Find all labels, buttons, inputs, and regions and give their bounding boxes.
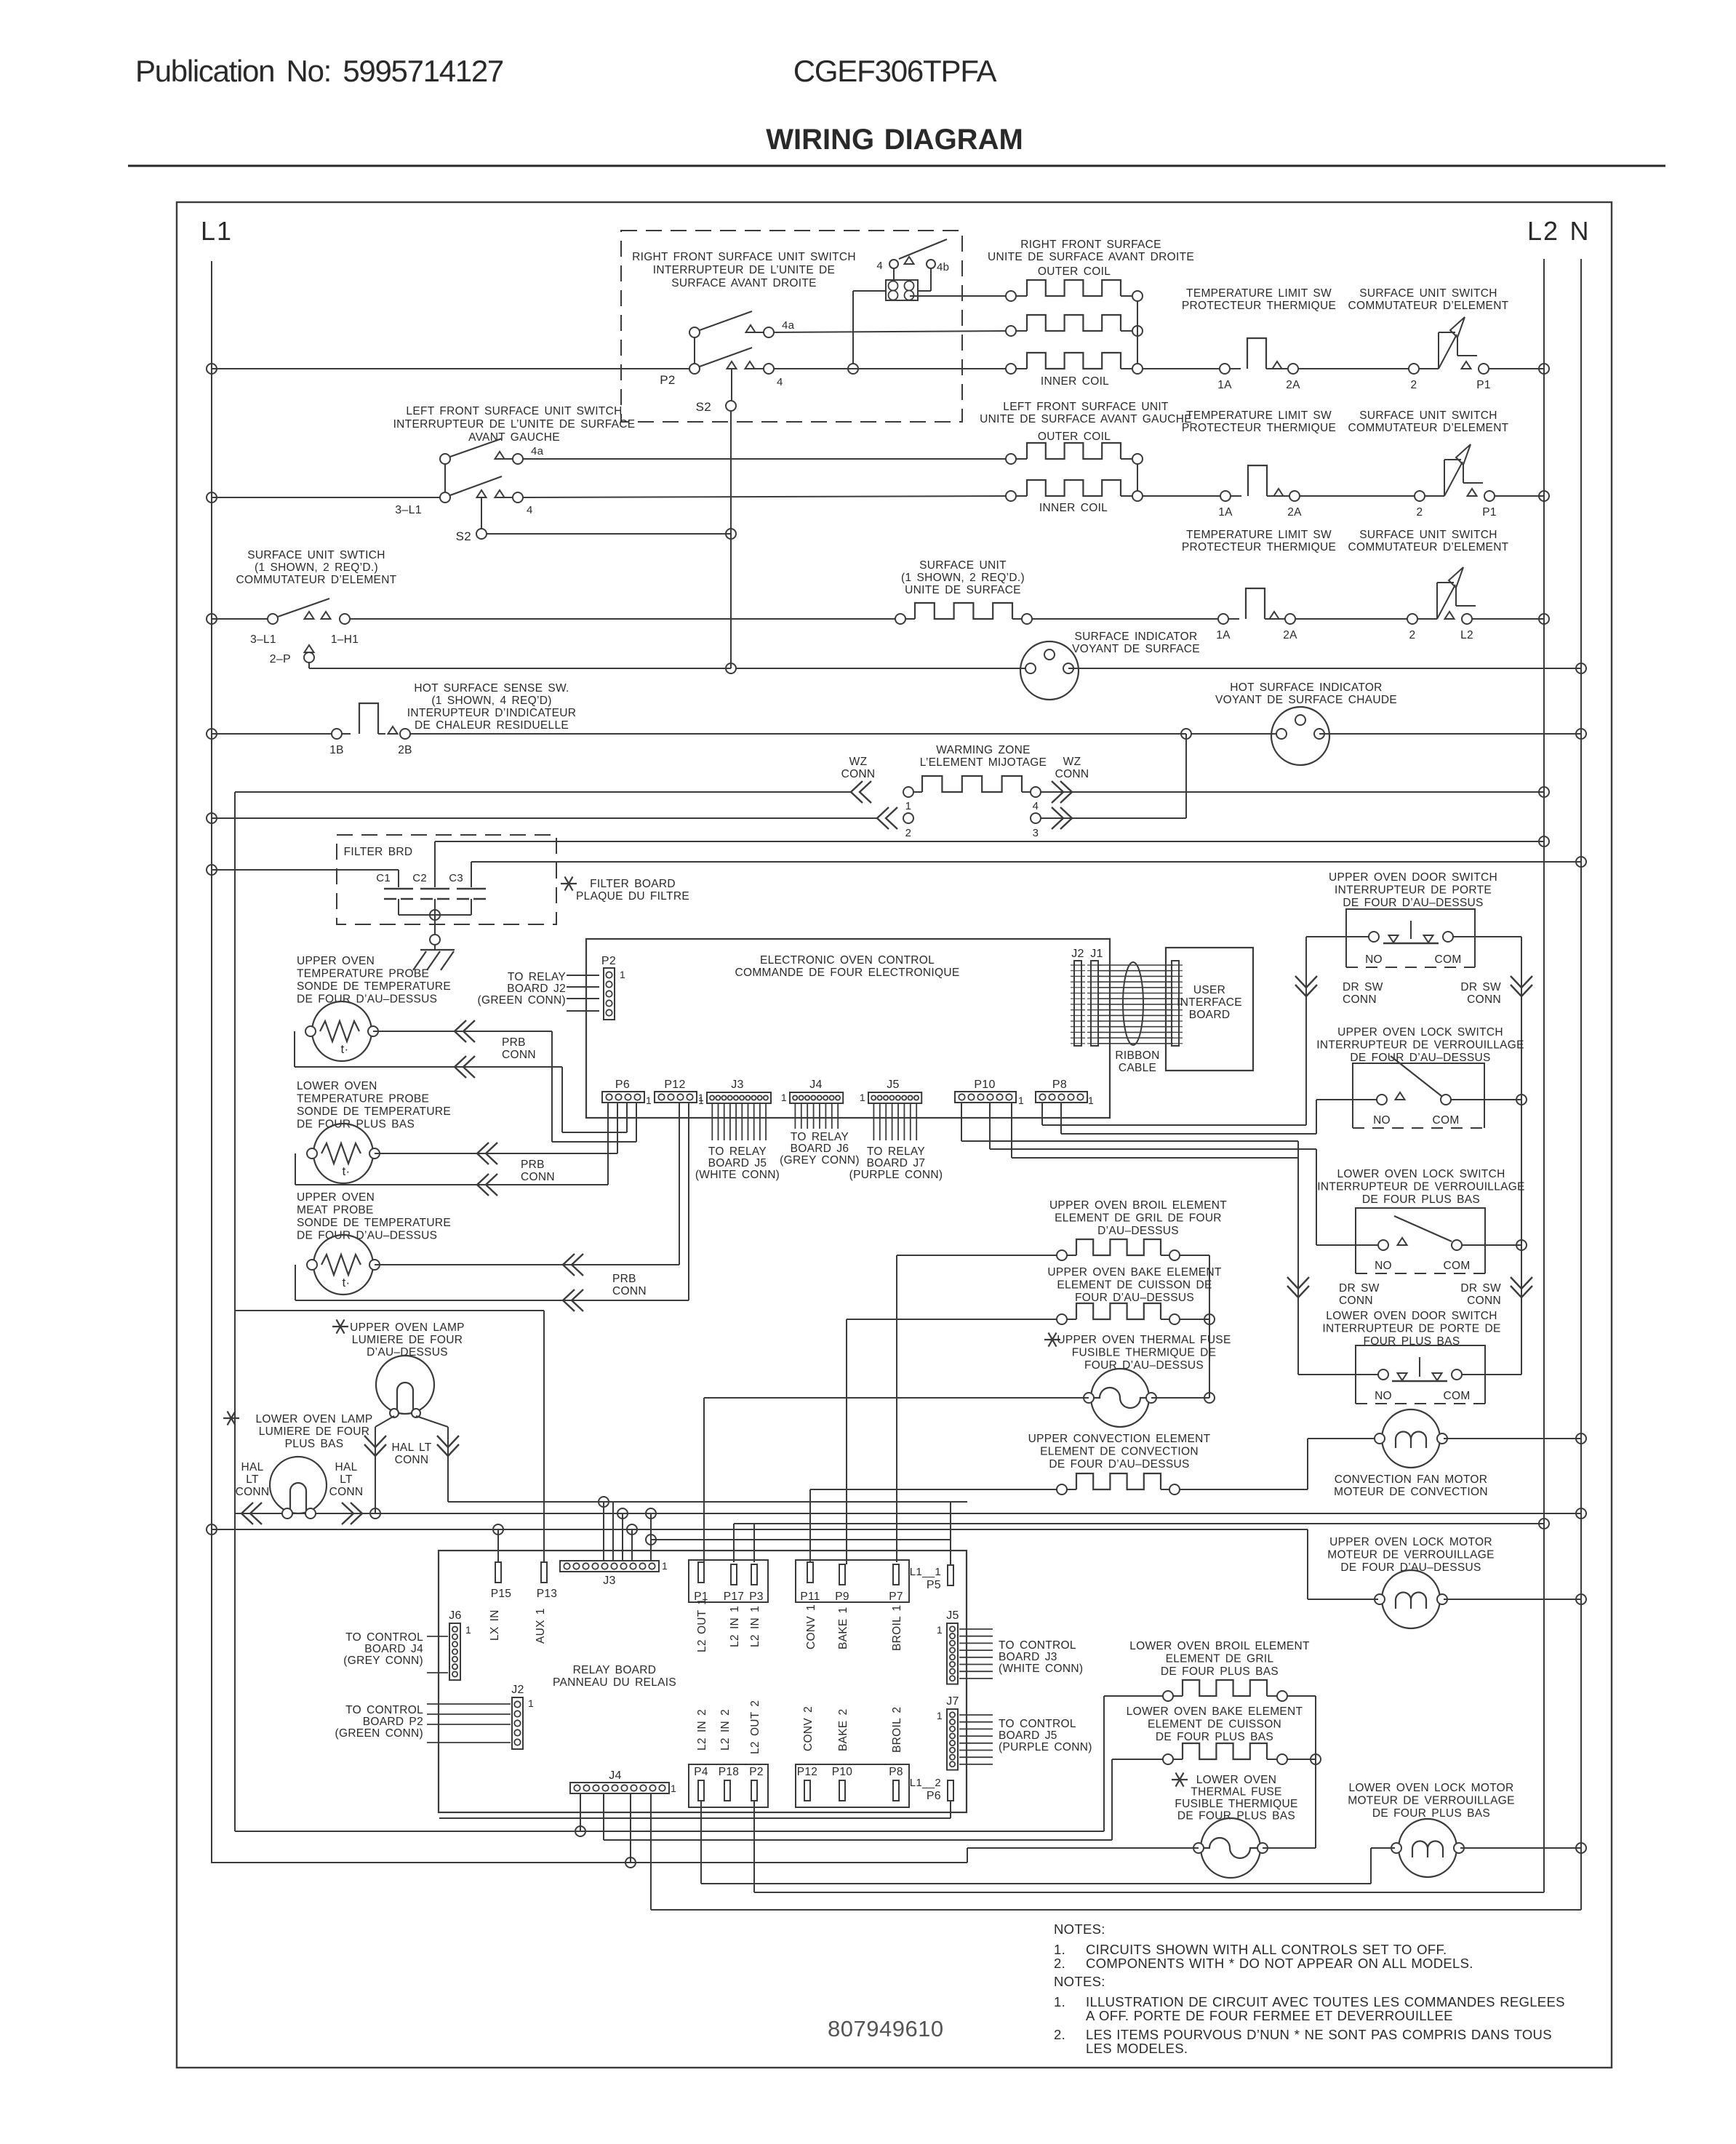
- svg-text:P2: P2: [601, 955, 616, 967]
- svg-text:HAL LT: HAL LT: [391, 1441, 431, 1454]
- svg-text:J6: J6: [449, 1609, 462, 1622]
- svg-text:WARMING ZONE: WARMING ZONE: [936, 744, 1031, 756]
- svg-text:(WHITE CONN): (WHITE CONN): [695, 1169, 780, 1181]
- svg-text:CONN: CONN: [329, 1486, 364, 1498]
- svg-text:SONDE DE TEMPERATURE: SONDE DE TEMPERATURE: [297, 980, 451, 993]
- wire warming row2 left: [207, 813, 877, 823]
- text L2 OUT 2: [749, 1700, 761, 1754]
- upper oven lock motor: [1375, 1570, 1447, 1628]
- svg-text:DE FOUR PLUS BAS: DE FOUR PLUS BAS: [1177, 1810, 1295, 1823]
- wires J6 ticks: [427, 1636, 448, 1673]
- svg-text:COM: COM: [1432, 1114, 1459, 1127]
- svg-text:2B: 2B: [398, 744, 412, 756]
- svg-text:SURFACE UNIT SWITCH: SURFACE UNIT SWITCH: [1359, 287, 1497, 300]
- wire J3 up a: [603, 1502, 604, 1561]
- svg-text:J2: J2: [1071, 948, 1084, 960]
- connector P10: [955, 1079, 1024, 1106]
- svg-text:CONV 2: CONV 2: [802, 1706, 815, 1751]
- svg-text:DE CHALEUR RESIDUELLE: DE CHALEUR RESIDUELLE: [415, 719, 569, 732]
- wire 2A to sw row3: [1295, 618, 1407, 620]
- label 3-L1 row2: [395, 504, 422, 516]
- prb conn label upper: [502, 1036, 536, 1061]
- svg-text:L1__1: L1__1: [910, 1566, 941, 1578]
- prb conn chevron lower1: [477, 1143, 497, 1164]
- svg-text:BOARD J3: BOARD J3: [999, 1651, 1057, 1663]
- svg-text:2: 2: [905, 827, 912, 839]
- svg-text:UPPER OVEN LOCK SWITCH: UPPER OVEN LOCK SWITCH: [1337, 1026, 1503, 1039]
- svg-text:BOARD J6: BOARD J6: [791, 1143, 849, 1155]
- wire P12 pin4: [688, 1103, 689, 1300]
- wire x323 to relay: [235, 1310, 544, 1311]
- wire J3 up b: [650, 1513, 652, 1561]
- svg-text:1: 1: [465, 1624, 471, 1636]
- svg-text:CONN: CONN: [1055, 768, 1089, 780]
- svg-text:TEMPERATURE LIMIT SW: TEMPERATURE LIMIT SW: [1186, 287, 1332, 300]
- wire meat probe top: [375, 1264, 679, 1265]
- label NO upper lock: [1373, 1114, 1391, 1127]
- svg-text:BOARD J5: BOARD J5: [708, 1157, 767, 1169]
- svg-text:ELEMENT DE CUISSON DE: ELEMENT DE CUISSON DE: [1057, 1279, 1212, 1292]
- svg-text:COMMUTATEUR D’ELEMENT: COMMUTATEUR D’ELEMENT: [236, 574, 397, 586]
- svg-text:HOT SURFACE SENSE SW.: HOT SURFACE SENSE SW.: [414, 682, 569, 695]
- svg-text:J4: J4: [609, 1769, 622, 1782]
- wire broil lower left: [1104, 1696, 1163, 1831]
- wire upper lamp left lead: [375, 1416, 394, 1513]
- connector P6: [602, 1079, 652, 1106]
- svg-text:LOWER OVEN LAMP: LOWER OVEN LAMP: [255, 1413, 372, 1425]
- wire indicator to N: [1068, 663, 1586, 673]
- svg-text:CGEF306TPFA: CGEF306TPFA: [793, 54, 997, 88]
- svg-text:MOTEUR DE VERROUILLAGE: MOTEUR DE VERROUILLAGE: [1327, 1549, 1495, 1561]
- upper convection element: [1057, 1473, 1180, 1495]
- svg-text:TO CONTROL: TO CONTROL: [999, 1718, 1076, 1730]
- svg-text:J2: J2: [511, 1684, 524, 1696]
- slot P7: [889, 1564, 903, 1603]
- wires J7 ticks: [959, 1715, 993, 1764]
- svg-text:LT: LT: [246, 1473, 259, 1486]
- svg-text:SONDE DE TEMPERATURE: SONDE DE TEMPERATURE: [297, 1105, 451, 1118]
- wz terminal 3: [1031, 813, 1041, 839]
- wire bake lower right: [1287, 1754, 1321, 1848]
- label P1 row2: [1482, 506, 1497, 519]
- svg-text:PRB: PRB: [612, 1273, 636, 1285]
- svg-text:PRB: PRB: [502, 1036, 526, 1049]
- svg-text:LES ITEMS POURVOUS D’NUN * NE: LES ITEMS POURVOUS D’NUN * NE SONT PAS C…: [1086, 2027, 1552, 2042]
- svg-text:UPPER OVEN BAKE ELEMENT: UPPER OVEN BAKE ELEMENT: [1047, 1266, 1221, 1279]
- svg-text:INTERRUPTEUR DE VERROUILLAGE: INTERRUPTEUR DE VERROUILLAGE: [1316, 1039, 1524, 1052]
- convection fan motor label: [1334, 1473, 1488, 1498]
- wire 2B to indicator: [410, 729, 1281, 739]
- label 4 row1: [777, 376, 783, 388]
- wire upper lamp right lead: [416, 1416, 448, 1502]
- svg-text:WIRING DIAGRAM: WIRING DIAGRAM: [766, 124, 1023, 156]
- wire coils to 1A row2: [1143, 495, 1220, 497]
- wire row filter L1: [207, 865, 399, 875]
- svg-text:TEMPERATURE LIMIT SW: TEMPERATURE LIMIT SW: [1186, 409, 1332, 422]
- svg-text:NO: NO: [1365, 953, 1383, 966]
- wire conv motor to N: [1444, 1433, 1586, 1444]
- wire P13 drop: [543, 1311, 545, 1562]
- svg-text:HAL: HAL: [241, 1461, 263, 1473]
- svg-text:P3: P3: [749, 1591, 764, 1603]
- svg-text:J4: J4: [809, 1079, 823, 1091]
- svg-text:LOWER OVEN DOOR SWITCH: LOWER OVEN DOOR SWITCH: [1326, 1310, 1497, 1322]
- label P12r: [797, 1766, 817, 1778]
- svg-text:PANNEAU DU RELAIS: PANNEAU DU RELAIS: [553, 1676, 676, 1689]
- filter board dashed box: [337, 835, 556, 924]
- wz terminal 2: [903, 813, 913, 839]
- svg-text:COMMUTATEUR D’ELEMENT: COMMUTATEUR D’ELEMENT: [1348, 300, 1509, 312]
- svg-text:LEFT FRONT SURFACE UNIT SWITCH: LEFT FRONT SURFACE UNIT SWITCH: [406, 405, 622, 417]
- ribbon cable label: [1115, 1049, 1159, 1074]
- slot P10r: [839, 1780, 845, 1801]
- svg-text:SURFACE UNIT SWITCH: SURFACE UNIT SWITCH: [1359, 409, 1497, 422]
- svg-text:PLUS BAS: PLUS BAS: [285, 1438, 344, 1450]
- svg-text:LOWER OVEN LOCK SWITCH: LOWER OVEN LOCK SWITCH: [1337, 1168, 1505, 1180]
- label outer coil row1: [1038, 265, 1111, 278]
- wire J4 pin a: [580, 1794, 581, 1831]
- svg-text:VOYANT DE SURFACE CHAUDE: VOYANT DE SURFACE CHAUDE: [1215, 694, 1397, 706]
- wire coil common row2: [1137, 464, 1138, 491]
- prb conn chevron upper2: [455, 1056, 475, 1078]
- label NO lower door: [1375, 1390, 1392, 1402]
- svg-text:P7: P7: [889, 1591, 903, 1603]
- wire P1 to L2 row1: [1489, 364, 1549, 374]
- connector J5 eoc: [860, 1079, 921, 1103]
- svg-text:4: 4: [527, 504, 533, 516]
- to relay board J5 label: [695, 1145, 780, 1181]
- text BAKE 2: [837, 1708, 849, 1751]
- svg-text:OUTER COIL: OUTER COIL: [1038, 265, 1111, 278]
- label inner coil row2: [1039, 502, 1108, 514]
- wire row 2530: [604, 1794, 1112, 1840]
- dr sw conn label lower right: [1460, 1282, 1501, 1307]
- schematic border: [177, 202, 1612, 2068]
- svg-text:t·: t·: [343, 1276, 351, 1289]
- svg-text:PROTECTEUR THERMIQUE: PROTECTEUR THERMIQUE: [1182, 300, 1336, 312]
- svg-text:MEAT PROBE: MEAT PROBE: [297, 1204, 374, 1217]
- label COM lower lock: [1443, 1260, 1470, 1272]
- lower oven thermal fuse: [1193, 1818, 1268, 1878]
- wire row 2602: [754, 1801, 1544, 1892]
- upper oven thermal fuse: [1084, 1369, 1156, 1427]
- svg-text:TO RELAY: TO RELAY: [867, 1145, 925, 1158]
- lower oven door switch: [1378, 1357, 1462, 1381]
- svg-text:INTERFACE: INTERFACE: [1177, 996, 1242, 1009]
- surface unit switch row1: [1409, 317, 1489, 374]
- svg-text:COM: COM: [1434, 953, 1461, 966]
- text L2 OUT 1: [696, 1599, 708, 1652]
- svg-text:1: 1: [781, 1092, 787, 1103]
- user interface board label: [1177, 984, 1242, 1021]
- svg-text:LUMIERE DE FOUR: LUMIERE DE FOUR: [259, 1425, 369, 1438]
- svg-text:RIGHT FRONT SURFACE UNIT SWITC: RIGHT FRONT SURFACE UNIT SWITCH: [632, 251, 856, 263]
- svg-text:4b: 4b: [937, 261, 949, 273]
- coil inner row1: [1006, 353, 1143, 374]
- svg-text:1A: 1A: [1217, 379, 1232, 391]
- connector P2 eoc: [601, 955, 625, 1020]
- svg-text:NOTES:: NOTES:: [1054, 1921, 1105, 1937]
- wire x323 vertical: [234, 792, 236, 1831]
- svg-text:LX IN: LX IN: [489, 1609, 501, 1641]
- label L1_1 P5: [910, 1566, 941, 1591]
- slot P12r: [804, 1780, 810, 1801]
- label 1-H1 row3: [331, 633, 359, 646]
- svg-text:DR SW: DR SW: [1343, 981, 1383, 993]
- wire lower probe top: [375, 1153, 617, 1154]
- lower oven bake element label: [1127, 1705, 1303, 1743]
- connector J4 eoc: [781, 1079, 843, 1103]
- svg-text:2: 2: [1411, 379, 1417, 391]
- svg-text:FILTER BOARD: FILTER BOARD: [590, 878, 676, 890]
- svg-text:NO: NO: [1375, 1260, 1392, 1272]
- switch row3: [268, 599, 350, 624]
- wire lock NO left: [1316, 1100, 1377, 1134]
- connector J3 eoc: [698, 1079, 771, 1103]
- label 4 block: [876, 260, 883, 272]
- upper oven thermal fuse label: [1044, 1332, 1231, 1372]
- lower oven lamp: [270, 1457, 327, 1513]
- prb conn label meat: [612, 1273, 647, 1297]
- hot surface indicator label: [1215, 681, 1397, 706]
- wire P10 pin6: [1012, 1103, 1298, 1158]
- slot P11: [800, 1562, 820, 1603]
- text AUX 1: [535, 1608, 547, 1644]
- svg-text:1: 1: [1018, 1095, 1024, 1106]
- label outer coil row2: [1038, 431, 1111, 443]
- svg-text:TO RELAY: TO RELAY: [708, 1145, 767, 1158]
- svg-text:UNITE DE SURFACE AVANT GAUCHE: UNITE DE SURFACE AVANT GAUCHE: [980, 413, 1192, 425]
- upper broil element: [1057, 1239, 1180, 1260]
- svg-text:NO: NO: [1375, 1390, 1392, 1402]
- box P4 P18 P2: [689, 1764, 768, 1807]
- wire broil lower right: [1287, 1696, 1316, 1759]
- wire row 2590: [701, 1801, 1371, 1884]
- lower oven lock motor label: [1348, 1782, 1515, 1820]
- dr sw conn label upper right: [1460, 981, 1501, 1006]
- svg-text:AUX 1: AUX 1: [535, 1608, 547, 1644]
- label P1 row1: [1476, 379, 1491, 391]
- svg-text:C3: C3: [449, 872, 463, 884]
- wire row3 to coil: [350, 618, 895, 620]
- svg-text:FOUR D’AU–DESSUS: FOUR D’AU–DESSUS: [1075, 1292, 1194, 1304]
- N bus: [1580, 259, 1582, 1910]
- wire row 2561 L1: [211, 1857, 967, 1868]
- svg-text:L2: L2: [1460, 629, 1473, 641]
- svg-text:BAKE 1: BAKE 1: [837, 1607, 849, 1649]
- svg-text:1: 1: [1088, 1095, 1094, 1106]
- svg-text:LOWER OVEN: LOWER OVEN: [1196, 1774, 1277, 1786]
- svg-text:D’AU–DESSUS: D’AU–DESSUS: [367, 1346, 448, 1359]
- upper oven broil element label: [1049, 1199, 1227, 1237]
- svg-text:P6: P6: [615, 1079, 630, 1091]
- label 1A row2: [1218, 506, 1233, 519]
- wire cap commons: [399, 910, 471, 920]
- temp limit switch row3: [1218, 588, 1295, 624]
- svg-text:1: 1: [671, 1783, 676, 1794]
- slot P8r: [893, 1780, 899, 1801]
- surface unit switch row3: [1407, 567, 1476, 624]
- svg-text:DE FOUR PLUS BAS: DE FOUR PLUS BAS: [1161, 1665, 1279, 1678]
- wz conn label right: [1055, 756, 1089, 780]
- upper bake element: [1057, 1303, 1180, 1324]
- surface unit switch label row1: [1348, 287, 1509, 312]
- svg-text:CABLE: CABLE: [1119, 1062, 1156, 1074]
- lower oven lock switch: [1378, 1216, 1462, 1250]
- wire S2 right front: [696, 361, 737, 533]
- upper oven lamp label: [332, 1319, 465, 1359]
- svg-text:Publication No: 5995714127: Publication No: 5995714127: [135, 54, 503, 88]
- svg-text:LOWER OVEN LOCK MOTOR: LOWER OVEN LOCK MOTOR: [1348, 1782, 1513, 1794]
- wire convection feed: [810, 1489, 1057, 1562]
- hal lt conn chevron upper right: [437, 1436, 459, 1456]
- svg-text:RIBBON: RIBBON: [1115, 1049, 1159, 1062]
- hal lt conn label lower left: [236, 1461, 270, 1498]
- wire L2 mid row: [734, 1519, 1549, 1562]
- wire warming row1: [235, 791, 851, 793]
- svg-text:DR SW: DR SW: [1460, 1282, 1501, 1295]
- label 2A row3: [1283, 629, 1297, 641]
- upper oven door switch label: [1329, 871, 1497, 909]
- connector J5 relay: [937, 1609, 959, 1684]
- L1 bus: [211, 261, 212, 1863]
- svg-text:COM: COM: [1443, 1260, 1470, 1272]
- text LX IN: [489, 1609, 501, 1641]
- svg-text:SURFACE INDICATOR: SURFACE INDICATOR: [1075, 631, 1198, 643]
- svg-text:LES MODELES.: LES MODELES.: [1086, 2041, 1188, 2056]
- slot P5: [948, 1565, 953, 1585]
- lower oven lock motor: [1391, 1819, 1464, 1877]
- wire lower door COM: [1462, 1374, 1521, 1375]
- svg-text:INTERRUPTEUR DE VERROUILLAGE: INTERRUPTEUR DE VERROUILLAGE: [1317, 1181, 1525, 1193]
- svg-text:CONVECTION FAN MOTOR: CONVECTION FAN MOTOR: [1335, 1473, 1488, 1486]
- wire coil commons row1: [1137, 301, 1138, 364]
- wire warming to L2: [1041, 787, 1549, 797]
- label 2 row3: [1409, 629, 1416, 641]
- svg-text:L2 IN 2: L2 IN 2: [719, 1709, 732, 1751]
- wire lower probe loop: [295, 1153, 608, 1185]
- label 2A row2: [1287, 506, 1302, 519]
- svg-text:UPPER OVEN DOOR SWITCH: UPPER OVEN DOOR SWITCH: [1329, 871, 1497, 884]
- svg-text:1: 1: [905, 800, 912, 812]
- svg-text:DE FOUR D’AU–DESSUS: DE FOUR D’AU–DESSUS: [1350, 1052, 1490, 1064]
- wire P1 to L2 row2: [1495, 491, 1549, 501]
- slot P13: [537, 1562, 557, 1600]
- svg-text:P9: P9: [835, 1591, 849, 1603]
- svg-text:2–P: 2–P: [270, 653, 291, 665]
- label L2 N: [1527, 216, 1591, 246]
- svg-text:L2 OUT 1: L2 OUT 1: [696, 1599, 708, 1652]
- wire P15 drop: [497, 1529, 499, 1562]
- svg-text:TEMPERATURE PROBE: TEMPERATURE PROBE: [297, 968, 429, 980]
- wire 4a to outer row2: [523, 458, 1011, 460]
- svg-text:PROTECTEUR THERMIQUE: PROTECTEUR THERMIQUE: [1182, 541, 1336, 553]
- svg-text:(GREEN CONN): (GREEN CONN): [478, 994, 567, 1007]
- part number 807949610: [828, 2016, 944, 2041]
- upper oven door switch box: [1346, 909, 1475, 967]
- svg-text:CONV 1: CONV 1: [805, 1604, 817, 1649]
- capacitor C3: [449, 862, 486, 915]
- svg-text:L2 IN 1: L2 IN 1: [729, 1606, 741, 1647]
- wire row4 left: [207, 729, 332, 739]
- label 2 row1: [1411, 379, 1417, 391]
- svg-text:1: 1: [937, 1710, 943, 1721]
- svg-text:COMMUTATEUR D’ELEMENT: COMMUTATEUR D’ELEMENT: [1348, 541, 1509, 553]
- svg-text:SURFACE UNIT SWITCH: SURFACE UNIT SWITCH: [1359, 529, 1497, 541]
- to relay board J7 label: [849, 1145, 943, 1181]
- wire J3 up c: [617, 1508, 628, 1561]
- svg-text:4a: 4a: [782, 319, 795, 332]
- svg-text:(GREEN CONN): (GREEN CONN): [335, 1727, 424, 1740]
- label 4 row2: [527, 504, 533, 516]
- hot surface indicator lamp: [1271, 707, 1329, 765]
- label P10r: [832, 1766, 853, 1778]
- lower oven temperature probe: [307, 1124, 380, 1183]
- notes french: [1054, 1974, 1565, 2056]
- coil surface unit row3: [895, 603, 1032, 624]
- label 1A row3: [1216, 629, 1231, 641]
- svg-text:BOARD: BOARD: [1189, 1009, 1231, 1021]
- wz chevron row2 right: [1052, 807, 1072, 829]
- prb conn label lower: [521, 1159, 555, 1183]
- wire lower lock COM: [1462, 1240, 1527, 1250]
- svg-text:UPPER OVEN BROIL ELEMENT: UPPER OVEN BROIL ELEMENT: [1049, 1199, 1227, 1212]
- wire P8 pin1: [1042, 1103, 1306, 1125]
- coil outer row2: [1006, 443, 1143, 464]
- svg-text:(1 SHOWN, 2 REQ’D.): (1 SHOWN, 2 REQ’D.): [255, 561, 378, 574]
- wire row2 left: [207, 492, 440, 503]
- label P2: [660, 373, 675, 387]
- svg-text:RELAY BOARD: RELAY BOARD: [573, 1664, 657, 1676]
- svg-text:PLAQUE DU FILTRE: PLAQUE DU FILTRE: [576, 890, 689, 903]
- svg-text:WZ: WZ: [849, 756, 868, 768]
- to relay board J2 label: [478, 971, 567, 1007]
- wire broil left: [897, 1255, 1057, 1562]
- svg-text:COMPONENTS WITH * DO NOT APPEA: COMPONENTS WITH * DO NOT APPEAR ON ALL M…: [1086, 1956, 1473, 1971]
- label COM upper door: [1434, 953, 1461, 966]
- svg-text:3–L1: 3–L1: [395, 504, 422, 516]
- svg-text:P10: P10: [832, 1766, 853, 1778]
- svg-text:CONN: CONN: [841, 768, 876, 780]
- svg-text:BOARD J7: BOARD J7: [867, 1157, 926, 1169]
- label 4a row2: [531, 445, 544, 457]
- svg-text:DE FOUR D’AU–DESSUS: DE FOUR D’AU–DESSUS: [1340, 1561, 1481, 1574]
- svg-text:COM: COM: [1443, 1390, 1470, 1402]
- svg-text:UNITE DE SURFACE AVANT DROITE: UNITE DE SURFACE AVANT DROITE: [988, 251, 1194, 263]
- wire 4a to outer coil mid: [773, 331, 1011, 332]
- svg-text:ELEMENT DE GRIL DE FOUR: ELEMENT DE GRIL DE FOUR: [1055, 1212, 1222, 1225]
- temp limit switch row2: [1220, 465, 1300, 501]
- wire door NO left: [1306, 937, 1369, 1125]
- wire row1 to inner coil: [773, 364, 1011, 374]
- upper oven temperature probe: [305, 1001, 378, 1061]
- svg-text:ELEMENT DE CUISSON: ELEMENT DE CUISSON: [1148, 1719, 1281, 1731]
- electronic oven control label: [735, 954, 960, 979]
- svg-text:UPPER CONVECTION ELEMENT: UPPER CONVECTION ELEMENT: [1028, 1433, 1211, 1445]
- svg-text:CONN: CONN: [395, 1454, 429, 1466]
- svg-text:INTERUPTEUR D’INDICATEUR: INTERUPTEUR D’INDICATEUR: [407, 707, 576, 719]
- slot P6r: [948, 1780, 953, 1801]
- wire bake lower left: [1112, 1759, 1163, 1840]
- surface indicator lamp: [1020, 641, 1079, 700]
- svg-text:1.: 1.: [1054, 1994, 1065, 2009]
- svg-text:2: 2: [1417, 506, 1423, 519]
- wires J3 stubs: [712, 1103, 766, 1140]
- wz conn chevron right out: [1052, 781, 1072, 803]
- connector P12: [655, 1079, 704, 1106]
- slot P2r: [751, 1780, 757, 1801]
- hal lt conn label upper: [391, 1441, 431, 1466]
